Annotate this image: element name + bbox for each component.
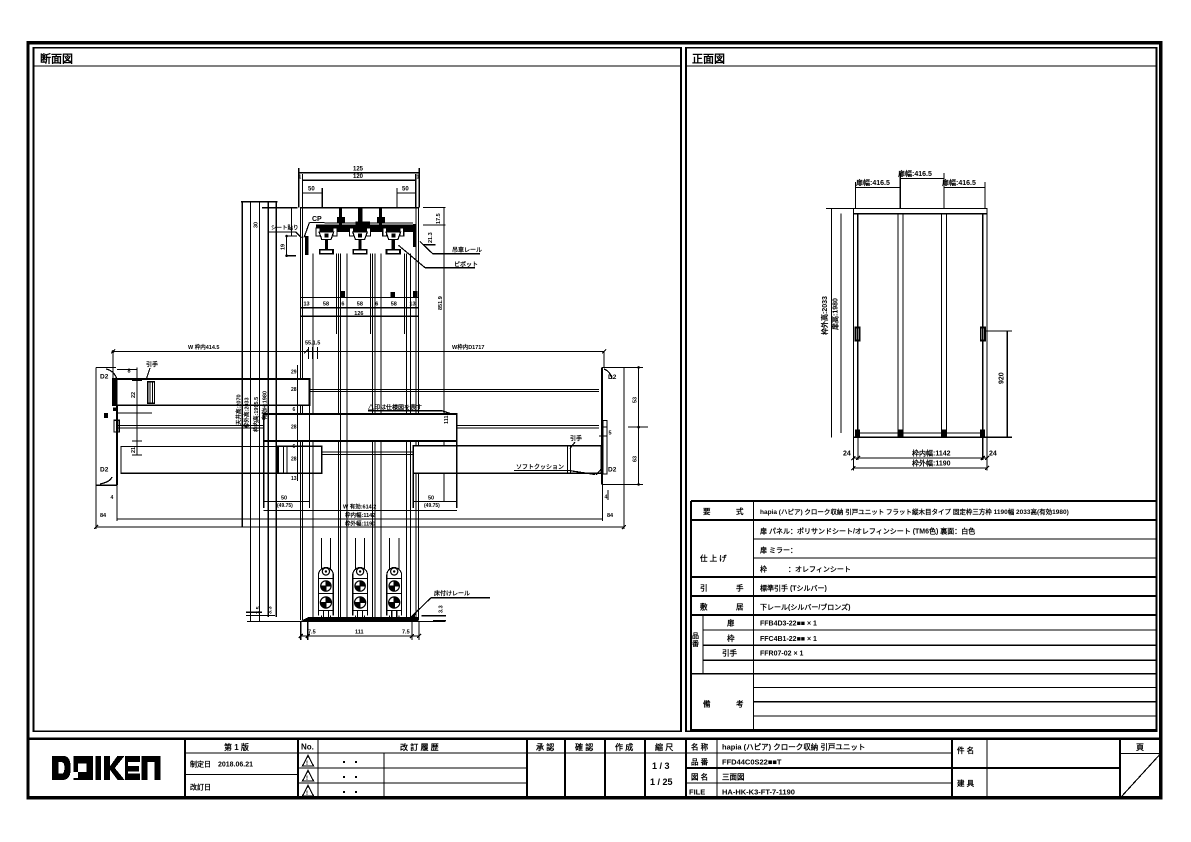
- svg-text:2018.06.21: 2018.06.21: [218, 762, 253, 769]
- svg-text:扉幅:416.5: 扉幅:416.5: [941, 178, 976, 187]
- svg-text:枠外幅:1190: 枠外幅:1190: [912, 459, 951, 468]
- svg-text:名 称: 名 称: [691, 742, 709, 752]
- No. column: [317, 739, 319, 799]
- svg-text:24: 24: [989, 451, 997, 458]
- svg-text:851.9: 851.9: [438, 296, 444, 310]
- dim 125 top: [299, 172, 419, 174]
- 55.1.5 ticks: [308, 347, 310, 359]
- svg-text:3.5: 3.5: [256, 606, 262, 614]
- svg-text:FFC4B1-22■■ × 1: FFC4B1-22■■ × 1: [760, 636, 817, 643]
- svg-text:21.3: 21.3: [428, 232, 434, 243]
- dim 17.5 right: [423, 207, 446, 209]
- svg-text:W枠内D1717: W枠内D1717: [452, 343, 484, 351]
- door3 handle recess: [567, 447, 569, 474]
- svg-text:枠内高:1995.5: 枠内高:1995.5: [252, 397, 260, 433]
- svg-text:17.5: 17.5: [436, 213, 442, 224]
- header underline row1: [298, 752, 527, 754]
- svg-text:84: 84: [100, 513, 107, 519]
- spec table frame: [691, 500, 1156, 502]
- svg-text:1 / 3: 1 / 3: [652, 761, 670, 771]
- E: [125, 756, 140, 762]
- 制定日 row: [185, 774, 298, 776]
- svg-text:No.: No.: [301, 743, 314, 752]
- DAIKEN logo: [52, 756, 161, 780]
- svg-text:3.3: 3.3: [268, 606, 274, 614]
- 頁 column: [1119, 739, 1121, 799]
- bottom dim 7.5 111 7.5: [301, 635, 419, 637]
- track line door3: [322, 451, 414, 453]
- svg-text:58: 58: [357, 302, 363, 308]
- svg-text:引手: 引手: [722, 648, 737, 658]
- svg-text:引手: 引手: [146, 361, 158, 369]
- left panel header line: [34, 65, 682, 67]
- svg-text:扉 パネル：ポリサンドシート/オレフィンシート (TM6色: 扉 パネル：ポリサンドシート/オレフィンシート (TM6色) 裏面：白色: [759, 527, 975, 536]
- hidden continuation lines from section above (under plan): [299, 334, 301, 620]
- svg-text:承 認: 承 認: [536, 742, 554, 752]
- hanger bolt 2: [379, 208, 382, 225]
- svg-text:吊車レール: 吊車レール: [452, 246, 482, 254]
- svg-text:hapia (ハピア) クローク収納 引戸ユニット フラッ: hapia (ハピア) クローク収納 引戸ユニット フラット縦木目タイプ 固定枠…: [760, 507, 1069, 516]
- svg-text:枠内幅:1142: 枠内幅:1142: [344, 511, 375, 519]
- small rotated marks: [340, 291, 345, 297]
- left jamb inner line: [857, 214, 859, 438]
- bolt line extensions: [339, 254, 341, 334]
- svg-text:改訂日: 改訂日: [190, 783, 211, 792]
- bottom guide roller 2: [353, 568, 368, 620]
- warning triangle 2: [303, 771, 314, 782]
- dim extension lines bottom: [852, 437, 854, 470]
- 品番 group end: [691, 673, 1156, 675]
- label column divider: [753, 501, 755, 731]
- right panel frame: [686, 48, 1156, 731]
- handle left door: [856, 328, 860, 341]
- door thickness dim row: [300, 297, 418, 299]
- handle right door: [981, 328, 985, 341]
- svg-text:6: 6: [293, 444, 296, 450]
- svg-text:!: !: [306, 776, 308, 782]
- center hanger plate: [356, 222, 371, 228]
- wall furring black right: [413, 224, 416, 247]
- svg-text:21: 21: [131, 447, 137, 453]
- right dim chain 53 63: [638, 367, 640, 484]
- svg-text:1: 1: [299, 175, 302, 181]
- svg-text:扉幅:416.5: 扉幅:416.5: [897, 169, 932, 178]
- floor rail black band: [300, 617, 419, 621]
- door2 plan rect: [264, 414, 457, 441]
- door3 section edges: [380, 254, 382, 334]
- bottom roller channel lines door2: [354, 538, 356, 618]
- long vertical dim bundle: [241, 201, 278, 203]
- svg-text:床付けレール: 床付けレール: [434, 590, 470, 598]
- 品番 group sub column: [702, 615, 704, 674]
- no column divider: [297, 739, 299, 799]
- svg-text:品 番: 品 番: [691, 757, 709, 767]
- right jamb inner line: [982, 214, 984, 438]
- 名称 column: [685, 739, 687, 799]
- svg-text:品: 品: [692, 631, 699, 640]
- bottom guide roller 3: [387, 568, 402, 620]
- svg-text:第 1 版: 第 1 版: [224, 742, 249, 752]
- track line door1: [310, 388, 600, 390]
- svg-text:58: 58: [323, 302, 329, 308]
- D: [52, 756, 71, 780]
- door2 section edges: [346, 254, 348, 334]
- svg-text:枠外高:2033: 枠外高:2033: [243, 397, 251, 429]
- svg-text:111: 111: [355, 630, 364, 636]
- door split 2 double line: [941, 214, 943, 438]
- svg-text:件 名: 件 名: [957, 745, 974, 755]
- svg-text:扉: 扉: [726, 618, 735, 628]
- svg-text:6: 6: [341, 302, 344, 308]
- svg-text:敷: 敷: [700, 602, 708, 612]
- a: [73, 756, 93, 780]
- svg-text:FFB4D3-22■■ × 1: FFB4D3-22■■ × 1: [760, 621, 817, 628]
- svg-text:84: 84: [607, 513, 614, 519]
- track line door2 left: [117, 425, 264, 427]
- svg-text:1: 1: [417, 175, 420, 181]
- svg-text:扉高:1980: 扉高:1980: [831, 298, 840, 331]
- svg-text:4: 4: [605, 495, 608, 501]
- svg-text:13: 13: [291, 476, 297, 482]
- track line door2 right: [457, 425, 599, 427]
- roller 1: [316, 228, 337, 254]
- left jamb top cap: [96, 366, 116, 368]
- svg-text:仕 上 げ: 仕 上 げ: [699, 553, 727, 563]
- svg-text:三面図: 三面図: [722, 773, 745, 782]
- bottom row pocket rect: [121, 446, 322, 473]
- pocket wall left double: [299, 208, 301, 334]
- dim 920 vertical: [1006, 331, 1008, 437]
- svg-text:55.1.5: 55.1.5: [305, 341, 320, 347]
- right jamb outer line: [623, 367, 625, 484]
- dim 枠外高2033 vertical: [830, 209, 832, 438]
- svg-text:28: 28: [291, 387, 297, 393]
- left mid pivot block: [113, 408, 118, 411]
- svg-text:53: 53: [633, 397, 639, 403]
- I: [95, 756, 101, 780]
- door1 section edges: [312, 254, 314, 334]
- svg-text:作 成: 作 成: [615, 742, 633, 752]
- svg-text:D2: D2: [608, 374, 617, 381]
- svg-text:50: 50: [402, 187, 409, 193]
- svg-text:引手: 引手: [570, 435, 582, 443]
- svg-text:hapia (ハピア) クローク収納 引戸ユニット: hapia (ハピア) クローク収納 引戸ユニット: [722, 742, 865, 752]
- svg-text:断面図: 断面図: [40, 52, 73, 66]
- svg-text:D2: D2: [100, 374, 109, 381]
- bottom roller channel lines door3: [389, 538, 391, 618]
- svg-text:居: 居: [736, 603, 744, 612]
- right panel header line: [686, 65, 1156, 67]
- door stop strip: [603, 421, 607, 475]
- svg-text:(49.75): (49.75): [424, 503, 440, 509]
- svg-text:58: 58: [391, 302, 397, 308]
- center dim stack: [297, 365, 299, 481]
- svg-text:111: 111: [444, 415, 450, 424]
- dim 19 left: [287, 235, 297, 237]
- svg-text:縮 尺: 縮 尺: [655, 742, 673, 752]
- svg-text:図 名: 図 名: [691, 772, 708, 782]
- left dim line 22 21: [136, 367, 138, 455]
- svg-text:枠外高:2033: 枠外高:2033: [820, 296, 829, 335]
- svg-text:!: !: [306, 761, 308, 767]
- revision dots: [343, 761, 345, 763]
- 件名 column: [951, 739, 953, 799]
- svg-text:125: 125: [353, 167, 364, 173]
- dim 50 left below plan: [263, 441, 265, 508]
- door split 1 double line: [897, 214, 899, 438]
- svg-text:22: 22: [131, 392, 137, 398]
- svg-text:頁: 頁: [1136, 743, 1144, 752]
- bottom roller channel lines door1: [320, 538, 322, 618]
- bottom row stile rect: [278, 446, 322, 473]
- dim ticks bottom row1: [851, 456, 855, 460]
- svg-text:枠 ：オレフィンシート: 枠 ：オレフィンシート: [760, 565, 851, 574]
- dim 50 right: [397, 192, 416, 194]
- FILE row: [686, 782, 952, 784]
- svg-text:24: 24: [843, 451, 851, 458]
- svg-text:HA-HK-K3-FT-7-1190: HA-HK-K3-FT-7-1190: [722, 788, 795, 797]
- visible crossing lines: [339, 334, 341, 620]
- svg-text:D2: D2: [100, 467, 109, 474]
- dim 枠外1190: [96, 526, 624, 528]
- left jamb bottom cap: [96, 484, 117, 486]
- revision sub divider: [383, 753, 385, 798]
- warning triangle 3: [303, 786, 314, 797]
- dim 21.3: [424, 244, 436, 246]
- extension verticals: [112, 352, 114, 380]
- n: [142, 756, 161, 780]
- dim W614.2: [264, 510, 457, 512]
- warning triangle 1: [303, 756, 314, 767]
- svg-text:D2: D2: [608, 467, 617, 474]
- door3 plan rect: [413, 446, 601, 474]
- 備考 rows: [754, 687, 1157, 689]
- svg-text:建 具: 建 具: [956, 778, 975, 788]
- svg-text:下レール(シルバー/ブロンズ): 下レール(シルバー/ブロンズ): [760, 603, 850, 612]
- dim 50 left: [302, 192, 322, 194]
- right floor step lines: [422, 615, 446, 617]
- svg-text:手: 手: [736, 583, 744, 593]
- svg-text:7.5: 7.5: [402, 630, 410, 636]
- svg-text:FFD44C0S22■■T: FFD44C0S22■■T: [722, 758, 782, 767]
- svg-text:枠: 枠: [726, 633, 735, 643]
- svg-text:3.3: 3.3: [439, 605, 445, 613]
- roller 3: [383, 228, 404, 254]
- svg-text:引: 引: [700, 583, 708, 593]
- svg-text:枠内幅:1142: 枠内幅:1142: [912, 449, 951, 458]
- door frame outer rect: [853, 209, 987, 438]
- svg-text:扉幅:416.5: 扉幅:416.5: [855, 178, 890, 187]
- dim 枠内1142: [117, 518, 603, 520]
- K: [104, 756, 125, 780]
- rail mount band: [316, 225, 413, 233]
- hanger bolt center: [358, 208, 362, 232]
- svg-text:制定日: 制定日: [190, 760, 211, 769]
- svg-text:W 枠内414.5: W 枠内414.5: [188, 343, 219, 351]
- svg-text:7.5: 7.5: [308, 630, 316, 636]
- revision row lines: [298, 767, 527, 769]
- page diagonal: [1120, 754, 1161, 799]
- svg-text:6: 6: [375, 302, 378, 308]
- svg-text:備: 備: [703, 699, 711, 709]
- svg-text:改 訂 履 歴: 改 訂 履 歴: [400, 742, 439, 752]
- revision date column divider: [184, 739, 186, 799]
- svg-text:確 認: 確 認: [575, 742, 593, 752]
- svg-text:5: 5: [609, 431, 612, 437]
- svg-text:有効H:1980: 有効H:1980: [261, 391, 269, 420]
- svg-text:標準引手 (Tシルバー): 標準引手 (Tシルバー): [760, 584, 827, 593]
- svg-text:4: 4: [111, 495, 114, 501]
- bolt adjuster nubs: [337, 217, 345, 223]
- bottom guide feet: [855, 430, 860, 438]
- svg-text:920: 920: [999, 372, 1006, 384]
- svg-text:50: 50: [428, 496, 434, 502]
- right jamb top cap: [602, 366, 624, 368]
- 作成 column: [604, 739, 606, 799]
- svg-text:FFR07-02 × 1: FFR07-02 × 1: [760, 651, 803, 658]
- svg-text:CP: CP: [312, 216, 322, 223]
- svg-text:(49.75): (49.75): [277, 503, 293, 509]
- left jamb body: [116, 380, 118, 485]
- floor line: [247, 621, 445, 623]
- 品番 row: [686, 752, 952, 754]
- svg-text:ソフトクッション: ソフトクッション: [516, 463, 564, 471]
- svg-text:天井高:2070: 天井高:2070: [235, 394, 243, 425]
- svg-text:FILE: FILE: [689, 788, 705, 797]
- svg-text:28: 28: [291, 457, 297, 463]
- 承認 column: [526, 739, 528, 799]
- dim 50 right below plan: [412, 473, 414, 508]
- svg-text:!: !: [306, 791, 308, 797]
- svg-text:要: 要: [703, 507, 711, 516]
- 第1版 header cell: [185, 752, 298, 754]
- door1 handle recess: [148, 382, 155, 404]
- wall furring black left: [305, 236, 309, 255]
- door1 end cap black: [113, 379, 118, 405]
- svg-text:扉 ミラー：: 扉 ミラー：: [759, 546, 797, 555]
- svg-text:120: 120: [353, 174, 364, 180]
- 図名 row: [686, 767, 1120, 769]
- svg-text:28: 28: [291, 425, 297, 431]
- svg-text:6: 6: [293, 407, 296, 413]
- svg-text:正面図: 正面図: [692, 52, 725, 66]
- svg-text:19: 19: [281, 244, 287, 250]
- ceiling line: [325, 222, 414, 224]
- svg-text:30: 30: [254, 222, 260, 228]
- dim 120: [302, 179, 415, 181]
- svg-text:13: 13: [304, 302, 310, 308]
- bottom inner line: [858, 432, 983, 434]
- svg-text:29: 29: [291, 370, 297, 376]
- head top line: [262, 207, 297, 209]
- left panel frame: [34, 48, 682, 731]
- right jamb bottom cap: [602, 483, 624, 485]
- svg-text:50: 50: [281, 496, 287, 502]
- svg-text:枠外幅:1190: 枠外幅:1190: [344, 519, 375, 527]
- svg-text:式: 式: [736, 506, 744, 516]
- frame head rail double line: [853, 213, 987, 215]
- bottom guide roller 1: [319, 568, 334, 620]
- left jamb outer line: [95, 367, 97, 485]
- roller 2: [350, 228, 371, 254]
- svg-text:13: 13: [409, 302, 415, 308]
- svg-text:シート貼り: シート貼り: [271, 224, 299, 232]
- hanger bolt 1: [339, 208, 342, 225]
- title block outer box: [28, 739, 1161, 799]
- svg-text:考: 考: [736, 699, 744, 709]
- svg-text:50: 50: [308, 187, 315, 193]
- svg-text:番: 番: [691, 639, 700, 648]
- pocket wall right double: [415, 208, 417, 334]
- 確認 column: [564, 739, 566, 799]
- svg-text:W 有効:614.2: W 有効:614.2: [343, 503, 376, 511]
- svg-text:63: 63: [633, 456, 639, 462]
- plan top dim line: [113, 351, 604, 353]
- dim 扉高1980 vertical: [840, 214, 842, 433]
- svg-text:1 / 25: 1 / 25: [650, 777, 673, 787]
- right jamb body: [601, 367, 603, 484]
- door1 plan rect: [113, 379, 310, 405]
- 縮尺 column: [644, 739, 646, 799]
- dim ticks bottom row2: [851, 466, 855, 470]
